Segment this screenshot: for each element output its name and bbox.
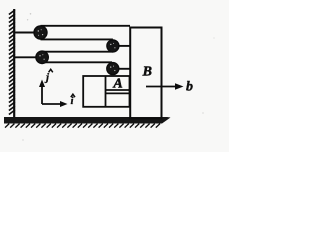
link pulley P4 to block B	[116, 68, 131, 70]
svg-text:A: A	[112, 77, 122, 92]
rope R3	[42, 51, 113, 53]
link wall to pulley P1	[14, 32, 36, 34]
pulley P2	[107, 40, 119, 52]
block B	[130, 28, 161, 119]
arrow b	[146, 80, 193, 95]
pulley P4	[107, 63, 119, 75]
axis label i-hat	[71, 94, 76, 107]
rope R4	[42, 61, 112, 63]
block A frame	[83, 76, 129, 107]
axis label j-hat	[44, 69, 53, 83]
svg-text:b: b	[186, 80, 193, 95]
wall	[9, 9, 15, 117]
rope R2	[41, 38, 113, 40]
svg-text:B: B	[142, 65, 152, 80]
link wall to pulley P3	[14, 56, 38, 58]
link pulley P2 to block B	[117, 45, 131, 47]
pulley P3	[36, 51, 48, 63]
scan noise specks	[22, 13, 214, 141]
ground	[4, 117, 171, 128]
coordinate axes	[39, 80, 68, 108]
pulley P1	[34, 26, 47, 39]
rope R1	[41, 25, 131, 27]
